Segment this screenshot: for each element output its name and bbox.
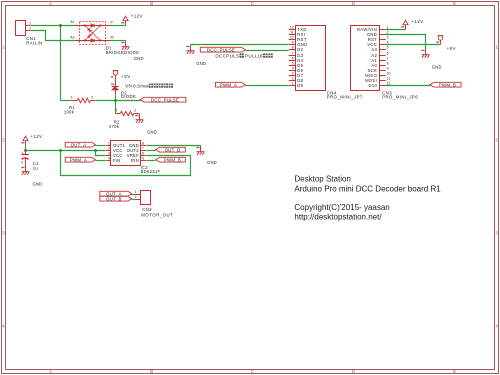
- wire jog VCC to IC2.3: [96, 151, 106, 156]
- svg-text:100k: 100k: [64, 110, 75, 115]
- svg-text:GND: GND: [33, 181, 43, 186]
- svg-text:1: 1: [116, 109, 118, 113]
- svg-text:+12V: +12V: [30, 134, 42, 139]
- svg-text:2: 2: [292, 77, 294, 81]
- svg-text:B: B: [150, 369, 153, 374]
- svg-text:12: 12: [290, 26, 294, 30]
- svg-text:1: 1: [292, 82, 294, 86]
- wire junction down to R2: [115, 101, 117, 114]
- svg-text:DIODE: DIODE: [121, 94, 136, 99]
- svg-text:7: 7: [292, 52, 294, 56]
- svg-text:D: D: [352, 369, 355, 374]
- wire CN3.12 to PWM_B: [386, 85, 431, 87]
- wire OUT_A to IC2.1: [96, 145, 106, 147]
- svg-text:1: 1: [70, 95, 72, 99]
- svg-text:9: 9: [292, 41, 294, 45]
- svg-text:D: D: [352, 1, 355, 6]
- net label PWM_B at IC2: [156, 157, 186, 162]
- svg-text:PRO_MINI_JP7: PRO_MINI_JP7: [327, 95, 363, 100]
- resistor R2: [109, 109, 139, 129]
- svg-text:1: 1: [29, 21, 31, 25]
- svg-text:PWM_A: PWM_A: [70, 157, 87, 162]
- ground at CN4 GND row: [186, 45, 194, 54]
- IC CN4 PRO_MINI_JP7: [289, 26, 363, 100]
- svg-text:E: E: [453, 1, 456, 6]
- svg-text:A2: A2: [70, 35, 74, 39]
- svg-text:D10: D10: [368, 83, 377, 88]
- svg-text:OUT_B: OUT_B: [165, 147, 181, 152]
- svg-text:Vf<0.5max: Vf<0.5max: [125, 83, 150, 88]
- svg-text:1: 1: [135, 190, 137, 194]
- svg-text:Arduino Pro mini DCC Decoder b: Arduino Pro mini DCC Decoder board R1: [294, 185, 441, 194]
- svg-text:http://desktopstation.net/: http://desktopstation.net/: [294, 213, 382, 222]
- svg-text:4: 4: [108, 157, 110, 161]
- ground below C1: [21, 166, 29, 175]
- svg-text:3: 3: [108, 152, 110, 156]
- +5V supply symbol above D2: [111, 71, 118, 87]
- svg-text:+12V: +12V: [412, 19, 424, 24]
- diode D2: [111, 76, 136, 99]
- +12V supply symbol at bridge: [121, 16, 128, 25]
- junction at C1 top: [24, 149, 27, 152]
- svg-text:PWM_A: PWM_A: [220, 82, 237, 87]
- svg-text:DCC_PULSE: DCC_PULSE: [207, 47, 235, 52]
- svg-text:BRIDGEDIODE: BRIDGEDIODE: [106, 50, 140, 55]
- svg-text:Copyright(C)'2015- yaasan: Copyright(C)'2015- yaasan: [294, 203, 389, 212]
- svg-text:4: 4: [292, 67, 294, 71]
- svg-text:B: B: [150, 1, 153, 6]
- title text: [294, 175, 441, 222]
- junction at R1/D2/R2 node: [114, 99, 117, 102]
- svg-text:6: 6: [292, 57, 294, 61]
- svg-text:PWM_B: PWM_B: [164, 157, 181, 162]
- junction at IC2 VCC jog: [94, 149, 97, 152]
- svg-text:GND: GND: [147, 130, 157, 135]
- wire R1 to DCC_PULSE label: [96, 100, 141, 102]
- ground at CN3: [421, 49, 429, 58]
- svg-text:+5V: +5V: [121, 74, 130, 79]
- wire GND to CN4 pin9: [191, 44, 289, 46]
- svg-text:DCCPULSE: DCCPULSE: [215, 54, 242, 59]
- resistor R1: [61, 95, 96, 114]
- wire CN3.4 to +5V: [386, 44, 441, 46]
- net label PWM_A at CN4: [215, 82, 245, 87]
- svg-text:10: 10: [290, 36, 294, 40]
- svg-text:2: 2: [135, 195, 137, 199]
- net label OUT_B at CN2: [100, 196, 132, 201]
- svg-text:D9: D9: [297, 83, 303, 88]
- ground at IC2 pin8: [196, 146, 204, 155]
- svg-text:PULLUP: PULLUP: [245, 54, 265, 59]
- svg-text:4: 4: [495, 324, 498, 329]
- svg-text:5: 5: [142, 157, 144, 161]
- wire bridge M to GND: [110, 40, 126, 42]
- svg-text:P: P: [111, 20, 114, 24]
- svg-text:4: 4: [2, 324, 5, 329]
- IC IC2 body: [106, 141, 161, 175]
- svg-text:1: 1: [495, 45, 498, 50]
- wire IC2.5 to PWM_B: [147, 160, 156, 162]
- svg-text:MOTOR_OUT: MOTOR_OUT: [141, 213, 173, 218]
- net label OUT_B at IC2: [156, 147, 186, 152]
- net label OUT_A at CN2: [100, 191, 132, 196]
- svg-text:FIN: FIN: [113, 158, 121, 163]
- svg-text:GND: GND: [134, 56, 144, 61]
- svg-text:1: 1: [108, 142, 110, 146]
- svg-text:1u: 1u: [33, 165, 39, 170]
- connector CN2: [135, 190, 174, 218]
- svg-text:GND: GND: [196, 61, 206, 66]
- wire CN1.1 to bridge A1: [31, 25, 80, 27]
- wire CN3.1 to +12V: [386, 29, 406, 31]
- text note DCCPULSE pullup: [215, 53, 272, 58]
- svg-text:M: M: [111, 36, 114, 40]
- svg-text:2: 2: [2, 138, 5, 143]
- wire PWM_A to CN4 pin1: [246, 85, 289, 87]
- svg-text:2: 2: [29, 27, 31, 31]
- wire IC2.6 VREF loop to +12V rail: [61, 151, 191, 176]
- svg-text:A: A: [49, 369, 52, 374]
- svg-text:RIN: RIN: [131, 158, 139, 163]
- svg-text:PWM_B: PWM_B: [439, 82, 456, 87]
- svg-text:270k: 270k: [109, 124, 120, 129]
- wire +12V stub down to rail: [25, 146, 27, 151]
- svg-text:9: 9: [387, 67, 389, 71]
- wire D2 to junction: [115, 95, 117, 101]
- svg-text:A: A: [49, 1, 52, 6]
- svg-text:5: 5: [292, 62, 294, 66]
- svg-text:+12V: +12V: [131, 14, 143, 19]
- wire IC2.8 to GND: [147, 145, 201, 147]
- text note Vf<0.5max: [125, 83, 173, 88]
- svg-text:OUT_A: OUT_A: [71, 142, 87, 147]
- svg-text:CN2: CN2: [142, 207, 152, 212]
- connector CN1: [16, 21, 43, 46]
- svg-text:E: E: [453, 369, 456, 374]
- capacitor C1: [21, 150, 39, 170]
- +5V supply symbol at CN3: [436, 36, 443, 45]
- net label DCC_PULSE at CN4: [200, 47, 245, 52]
- svg-text:3: 3: [387, 36, 389, 40]
- bridge rectifier D1: [70, 20, 139, 55]
- wire DCC_PULSE to CN4 pin8: [246, 50, 289, 52]
- svg-text:PRO_MINI_JP6: PRO_MINI_JP6: [382, 95, 418, 100]
- svg-text:C: C: [251, 1, 254, 6]
- svg-text:8: 8: [292, 46, 294, 50]
- svg-text:RAILIN: RAILIN: [26, 41, 42, 46]
- svg-text:D2: D2: [297, 47, 303, 52]
- net label OUT_A at IC2: [65, 142, 95, 147]
- +12V supply symbol at CN3: [401, 20, 408, 29]
- svg-text:C: C: [251, 369, 254, 374]
- svg-text:A3: A3: [371, 47, 377, 52]
- +12V supply symbol at C1: [21, 136, 28, 145]
- svg-text:1: 1: [2, 45, 5, 50]
- wire PWM_A to IC2.4: [96, 160, 106, 162]
- svg-text:10: 10: [387, 72, 391, 76]
- svg-text:8: 8: [387, 62, 389, 66]
- svg-text:5: 5: [387, 46, 389, 50]
- svg-text:A1: A1: [70, 20, 74, 24]
- wire +12V rail to IC2 VCC: [26, 150, 106, 152]
- svg-text:1: 1: [21, 151, 23, 155]
- svg-text:2: 2: [134, 109, 136, 113]
- svg-text:OUT_B: OUT_B: [106, 196, 122, 201]
- svg-text:11: 11: [290, 31, 294, 35]
- svg-text:BD6231F: BD6231F: [141, 169, 161, 174]
- svg-text:2: 2: [21, 160, 23, 164]
- wire down to R1 row: [60, 26, 62, 101]
- svg-text:11: 11: [387, 77, 391, 81]
- wire OUT_B to CN2.2: [132, 199, 136, 201]
- svg-text:7: 7: [142, 147, 144, 151]
- svg-text:GND: GND: [207, 160, 217, 165]
- svg-text:8: 8: [142, 142, 144, 146]
- svg-text:Desktop Station: Desktop Station: [294, 175, 350, 184]
- junction at CN1 pin1 wire: [59, 24, 62, 27]
- svg-text:3: 3: [495, 231, 498, 236]
- svg-text:2: 2: [495, 138, 498, 143]
- svg-text:2: 2: [108, 147, 110, 151]
- ground at R2: [135, 114, 143, 123]
- wire CN1.2 to bridge A2: [31, 31, 80, 41]
- wire IC2.7 to OUT_B: [147, 150, 156, 152]
- ground at bridge M: [121, 41, 129, 50]
- net label PWM_A at IC2: [65, 157, 95, 162]
- net label PWM_B at CN3: [430, 82, 461, 87]
- svg-text:3: 3: [292, 72, 294, 76]
- wire bridge P to +12V: [110, 25, 126, 27]
- svg-text:3: 3: [2, 231, 5, 236]
- wire CN3.2 to GND: [386, 35, 426, 49]
- IC CN3 PRO_MINI_JP6: [351, 26, 419, 100]
- wire OUT_A to CN2.1: [132, 194, 136, 196]
- wire to R1: [61, 100, 71, 102]
- junction at VREF loop: [59, 149, 62, 152]
- svg-text:+5V: +5V: [447, 46, 456, 51]
- svg-text:6: 6: [387, 52, 389, 56]
- svg-text:7: 7: [387, 57, 389, 61]
- svg-text:DCC_PULSE: DCC_PULSE: [151, 97, 179, 102]
- net label DCC_PULSE (left): [140, 97, 186, 102]
- svg-text:6: 6: [142, 152, 144, 156]
- svg-text:GND: GND: [432, 65, 442, 70]
- svg-text:2: 2: [91, 95, 93, 99]
